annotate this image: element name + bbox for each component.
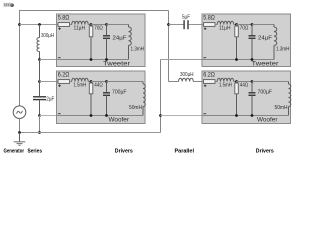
capacitor C2 5µF (series to right tweeter) <box>169 24 184 26</box>
wire: left woofer return <box>40 115 57 117</box>
wire: feed to left woofer <box>40 81 57 83</box>
node E: series branch bottom <box>38 131 41 134</box>
svg-text:Tweeter: Tweeter <box>103 61 131 68</box>
svg-text:300µH: 300µH <box>41 33 54 39</box>
wire: feed to left tweeter <box>20 24 57 26</box>
wire <box>252 81 289 83</box>
wire: parallel rail <box>168 11 170 82</box>
resistor Res 70Ω <box>236 25 238 27</box>
svg-text:44Ω: 44Ω <box>94 82 103 88</box>
svg-text:11µH: 11µH <box>219 26 231 32</box>
generator G1 <box>13 106 26 119</box>
node G: right woofer return tap <box>159 114 162 117</box>
wire <box>252 24 274 26</box>
wire: right tweeter return drop <box>161 59 203 61</box>
svg-text:24µF: 24µF <box>258 36 273 42</box>
junction node (shunt C tap) <box>105 80 108 83</box>
junction node (shunt R tap) <box>90 23 93 26</box>
ground symbol <box>19 133 21 142</box>
resistor Re 5.8Ω <box>202 24 204 26</box>
wire: bottom return bus <box>20 132 161 134</box>
node A: series branch top <box>38 23 41 26</box>
wire: top bus from generator+ to parallel rail <box>20 10 169 12</box>
bottom rail wire <box>57 115 144 117</box>
inductor Lces 1.3mH <box>128 25 130 28</box>
junction node (shunt C tap) <box>251 23 254 26</box>
svg-text:5.8Ω: 5.8Ω <box>58 16 70 22</box>
wire: left rail lower <box>19 119 21 133</box>
junction node (shunt R tap) <box>235 80 238 83</box>
svg-text:Generator: Generator <box>4 148 25 154</box>
driver equivalent box Tweeter <box>57 14 146 67</box>
resistor Re 6.2Ω <box>202 81 204 83</box>
node B: tweeter minus / woofer plus <box>38 58 41 61</box>
wire <box>107 81 144 83</box>
wire: left rail upper <box>19 10 21 106</box>
junction node (R bottom) <box>90 114 93 117</box>
svg-text:50mH: 50mH <box>129 105 142 111</box>
driver equivalent box Tweeter <box>202 14 291 67</box>
wire <box>236 24 253 26</box>
svg-text:50mH: 50mH <box>275 105 288 111</box>
wire: right woofer return <box>161 115 203 117</box>
svg-text:11µH: 11µH <box>74 26 86 32</box>
inductor Le 11µH <box>70 24 72 26</box>
svg-text:Series: Series <box>28 148 43 154</box>
plus terminal <box>204 84 207 87</box>
wire <box>91 24 108 26</box>
svg-text:1.3mH: 1.3mH <box>276 46 290 52</box>
inductor L2 300µH (series to right woofer) <box>169 81 179 83</box>
wire: branch D to bottom bus <box>39 116 41 133</box>
resistor Re 6.2Ω <box>57 81 59 83</box>
resistor Res 70Ω <box>90 25 92 27</box>
svg-text:Drivers: Drivers <box>256 148 274 154</box>
minus terminal <box>204 57 207 59</box>
svg-text:70Ω: 70Ω <box>94 25 103 31</box>
svg-text:Woofer: Woofer <box>109 117 130 124</box>
junction node (shunt C tap) <box>251 80 254 83</box>
resistor Re 5.8Ω <box>57 24 59 26</box>
driver equivalent box Woofer <box>57 71 146 124</box>
application logo top-left <box>3 3 14 7</box>
wire <box>107 24 129 26</box>
bottom rail wire <box>57 59 129 61</box>
capacitor C1 2µF (parallel to woofer) <box>33 96 46 98</box>
junction node (C bottom) <box>251 58 254 61</box>
minus terminal <box>58 57 61 59</box>
junction node (shunt R tap) <box>90 80 93 83</box>
svg-text:44Ω: 44Ω <box>240 82 249 88</box>
node GND: generator minus <box>18 131 21 134</box>
svg-text:700µF: 700µF <box>112 89 127 95</box>
junction node (C bottom) <box>105 114 108 117</box>
junction node (C bottom) <box>251 114 254 117</box>
svg-text:6.2Ω: 6.2Ω <box>203 73 215 79</box>
bottom rail wire <box>202 115 289 117</box>
svg-text:Drivers: Drivers <box>115 148 133 154</box>
svg-text:2µF: 2µF <box>46 97 55 103</box>
plus terminal <box>58 27 61 30</box>
resistor Res 44Ω <box>236 82 238 84</box>
inductor Le 11µH <box>215 24 217 26</box>
junction node (R bottom) <box>235 114 238 117</box>
junction node (C bottom) <box>105 58 108 61</box>
inductor Lces 50mH <box>288 82 290 85</box>
node F: parallel rail tweeter tap <box>167 23 170 26</box>
svg-text:Parallel: Parallel <box>175 148 195 154</box>
inductor Le 1.5mH <box>215 81 217 83</box>
svg-text:Woofer: Woofer <box>257 117 278 124</box>
svg-text:1.5mH: 1.5mH <box>74 83 87 89</box>
node: generator plus / tweeter feed <box>18 23 21 26</box>
wire <box>236 81 253 83</box>
junction node (shunt C tap) <box>105 23 108 26</box>
node D: woofer minus <box>38 114 41 117</box>
svg-text:5µF: 5µF <box>182 15 191 21</box>
capacitor Ces 700µF <box>106 82 108 93</box>
inductor Le 1.5mH <box>70 81 72 83</box>
minus terminal <box>58 113 61 115</box>
minus terminal <box>204 113 207 115</box>
svg-text:1.3mH: 1.3mH <box>131 46 145 52</box>
driver equivalent box Woofer <box>202 71 291 124</box>
node C: woofer feed tap <box>38 80 41 83</box>
wire <box>91 81 108 83</box>
inductor Lces 1.3mH <box>273 25 275 28</box>
svg-text:700µF: 700µF <box>258 89 273 95</box>
capacitor Ces 700µF <box>251 82 253 93</box>
plus terminal <box>204 27 207 30</box>
wire: left tweeter return <box>40 59 57 61</box>
junction node (shunt R tap) <box>235 23 238 26</box>
svg-text:5.8Ω: 5.8Ω <box>203 16 215 22</box>
junction node (R bottom) <box>235 58 238 61</box>
svg-text:6.2Ω: 6.2Ω <box>58 73 70 79</box>
svg-text:24µF: 24µF <box>113 36 128 42</box>
inductor Lces 50mH <box>142 82 144 85</box>
inductor L1 300µH (series crossover, parallel to tweeter) <box>39 25 41 38</box>
svg-text:Tweeter: Tweeter <box>252 61 280 68</box>
junction node (R bottom) <box>90 58 93 61</box>
capacitor Ces 24µF <box>251 25 253 36</box>
svg-text:1.5mH: 1.5mH <box>219 83 232 89</box>
bottom rail wire <box>202 59 274 61</box>
capacitor Ces 24µF <box>106 25 108 36</box>
wire: branch B to C <box>39 60 41 97</box>
svg-text:70Ω: 70Ω <box>240 25 249 31</box>
svg-text:300µH: 300µH <box>180 72 194 78</box>
resistor Res 44Ω <box>90 82 92 84</box>
plus terminal <box>58 84 61 87</box>
